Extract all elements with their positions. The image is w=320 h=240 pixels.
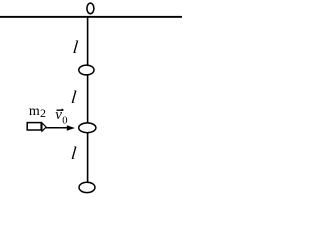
- ball B1: [79, 65, 94, 75]
- svg-text:m: m: [29, 104, 40, 119]
- vector arrow over v: [57, 109, 64, 110]
- bullet nose: [42, 123, 46, 131]
- point O label: [87, 3, 94, 14]
- string (vertical wire): [87, 17, 89, 182]
- ball B2: [79, 123, 96, 133]
- velocity arrowhead: [67, 125, 75, 130]
- svg-text:2: 2: [40, 106, 46, 120]
- svg-text:l: l: [70, 143, 77, 163]
- svg-text:l: l: [72, 37, 79, 57]
- ball B3: [79, 182, 95, 192]
- bullet body: [27, 123, 41, 130]
- svg-text:l: l: [70, 87, 77, 107]
- svg-text:0: 0: [62, 116, 67, 127]
- ceiling line: [0, 16, 182, 18]
- velocity arrow shaft: [46, 127, 68, 129]
